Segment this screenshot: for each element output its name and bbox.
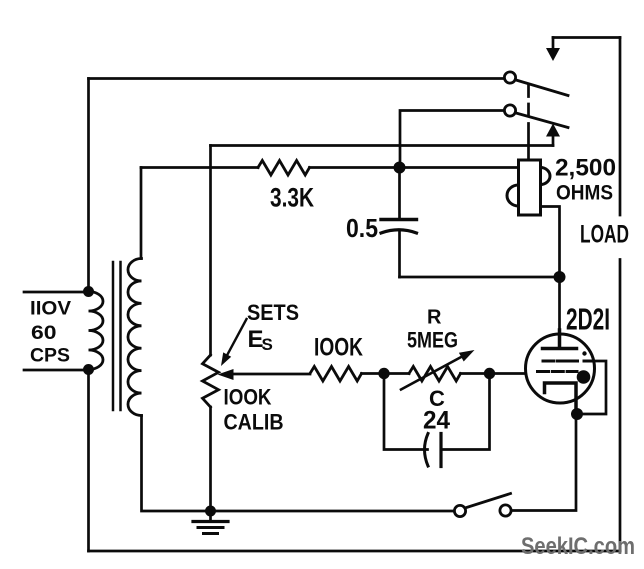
svg-text:3.3K: 3.3K [270,183,314,213]
arrow pot wiper [231,373,310,376]
wire cap bottom to plate node [400,276,560,279]
svg-text:2D2I: 2D2I [566,302,610,337]
wire 5MEG to grid [461,372,538,375]
tube 2D21 envelope [526,334,595,403]
wire contact feed [211,144,554,147]
wire cathode down to switch [511,414,576,511]
wire right rail upper [619,38,622,216]
tube plate [543,330,577,349]
capacitor 0.5 [381,168,417,278]
node junction plate [554,271,566,283]
wire plate lead [558,277,561,348]
svg-text:2,500: 2,500 [555,155,616,182]
svg-text:60: 60 [31,322,57,344]
relay coil K1 2500 ohms [507,160,550,215]
relay contact K1b arm [516,113,568,128]
tube cathode [545,383,577,414]
wire top rail [89,77,505,80]
tube shield grid (dashed) [543,360,593,363]
wire right rail lower [619,260,622,552]
svg-text:IIOV: IIOV [30,299,71,320]
svg-text:IOOK: IOOK [224,385,272,410]
wire top right [553,36,620,39]
wire bottom rail [89,550,621,553]
relay contact K1b pivot [504,105,515,116]
svg-text:LOAD: LOAD [580,221,629,249]
svg-text:CALIB: CALIB [224,410,284,435]
wire line stub bottom [24,369,89,372]
gas dot [577,370,591,384]
switch S1 arm [465,494,511,509]
wire pot top feed [209,146,212,356]
ground [193,511,228,534]
node primary top [83,286,94,297]
resistor R 5MEG variable [409,367,461,382]
svg-text:SeekIC.com: SeekIC.com [521,533,635,560]
transformer T1 core [113,262,121,410]
wire 3.3K branch left [141,166,258,169]
wire shield to cathode loop [583,361,606,414]
node primary bottom [83,364,94,375]
node cathode junction [571,408,583,420]
node junction right of 5MEG [484,368,495,379]
wire coil bottom to plate [541,207,560,278]
relay contact K1a arm [516,80,568,96]
arrow line terminal down [552,38,555,51]
potentiometer 100K CALIB [203,355,219,407]
tube control grid (dashed) [538,370,578,373]
svg-text:CPS: CPS [30,346,70,367]
node ground junction [205,506,216,517]
wire 3.3K branch right [310,166,519,169]
transformer T1 primary [89,292,104,370]
svg-text:S: S [262,335,273,354]
relay contact K1a pivot [504,72,515,83]
svg-text:24: 24 [423,407,450,435]
svg-text:0.5: 0.5 [346,213,378,243]
capacitor C 24 [384,374,490,467]
wire left rail lower [87,370,90,552]
wire secondary top lead [140,168,143,259]
svg-text:SETS: SETS [247,300,299,325]
wire left rail [87,79,90,292]
svg-text:5MEG: 5MEG [407,328,458,353]
arrow SETS pointer [225,319,247,360]
svg-text:OHMS: OHMS [556,181,613,205]
resistor 100K [310,367,362,382]
svg-text:IOOK: IOOK [314,334,363,362]
switch S1 left terminal [454,505,465,516]
node junction left of 5MEG [378,368,389,379]
node junction cap top [394,162,406,174]
wire secondary bottom lead [142,416,455,512]
wire pot bottom [209,407,212,511]
arrow contact terminal up [552,135,555,146]
arrow 5MEG adjust [401,356,463,390]
resistor 3.3K [258,161,310,176]
relay mechanical link (dashed) [527,85,530,160]
wire to contact K1b [400,111,505,168]
transformer T1 secondary [128,259,142,416]
switch S1 right terminal [500,505,511,516]
wire resistor to 5MEG [362,372,410,375]
svg-text:R: R [427,307,442,329]
wire line stub top [24,291,89,294]
